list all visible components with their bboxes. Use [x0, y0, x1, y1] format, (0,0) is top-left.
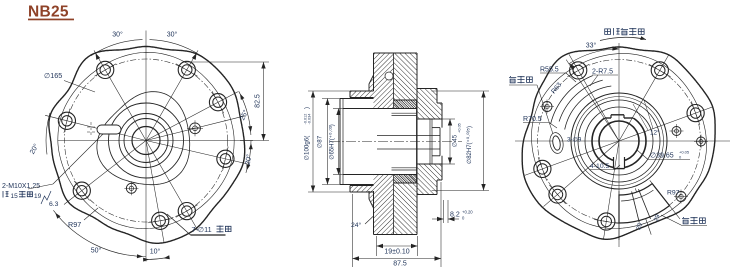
svg-text:19: 19	[34, 193, 42, 200]
svg-text:7-∅11: 7-∅11	[192, 225, 212, 234]
svg-text:8.2: 8.2	[450, 212, 460, 219]
svg-text:R97: R97	[667, 190, 680, 197]
svg-text:NB25: NB25	[28, 4, 69, 21]
svg-text:30°: 30°	[112, 31, 123, 39]
svg-text:6.3: 6.3	[49, 201, 59, 208]
svg-text:-0.034: -0.034	[308, 114, 312, 125]
svg-text:∅39.65: ∅39.65	[650, 153, 674, 160]
svg-text:R70.5: R70.5	[523, 116, 542, 123]
svg-text:R55.5: R55.5	[540, 67, 559, 74]
svg-text:2-R7.5: 2-R7.5	[592, 69, 613, 76]
svg-text:∅65H7(⁺⁰·⁰³): ∅65H7(⁺⁰·⁰³)	[329, 124, 336, 160]
svg-text:2-M10X1.25: 2-M10X1.25	[2, 183, 40, 190]
svg-text:∅165: ∅165	[44, 71, 62, 80]
svg-text:82.5: 82.5	[255, 94, 262, 108]
svg-text:3-∅9: 3-∅9	[567, 137, 582, 144]
svg-text:∅82H7(⁺⁰·⁰³⁵): ∅82H7(⁺⁰·⁰³⁵)	[466, 126, 473, 164]
svg-text:4-10.5: 4-10.5	[590, 163, 609, 170]
svg-text:33°: 33°	[586, 42, 597, 50]
svg-text:): )	[304, 107, 311, 109]
svg-text:∅100g6(: ∅100g6(	[304, 135, 311, 161]
svg-text:87.5: 87.5	[393, 261, 407, 268]
svg-text:24°: 24°	[351, 221, 362, 229]
svg-text:10°: 10°	[150, 248, 161, 256]
svg-text:12°: 12°	[650, 129, 660, 137]
svg-text:R97: R97	[68, 220, 81, 229]
svg-text:50°: 50°	[91, 247, 102, 255]
svg-text:15: 15	[11, 193, 19, 200]
svg-text:+0.20: +0.20	[462, 210, 473, 215]
svg-text:19±0.10: 19±0.10	[384, 249, 409, 256]
svg-text:30°: 30°	[167, 31, 178, 39]
svg-text:∅45: ∅45	[452, 134, 459, 147]
svg-text:∅87: ∅87	[317, 135, 324, 148]
svg-text:+0.05: +0.05	[458, 123, 462, 133]
